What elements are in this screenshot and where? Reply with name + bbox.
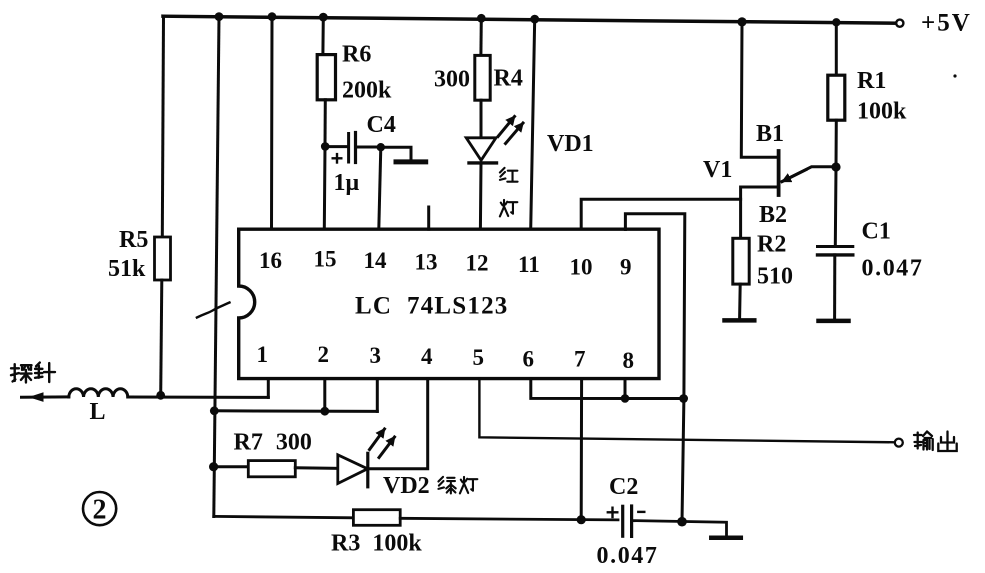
polarity - of C2 — [638, 511, 644, 513]
svg-text:R5: R5 — [119, 227, 148, 253]
transistor V1 base bar — [777, 151, 781, 195]
wire: bottom bus to R3 — [214, 516, 354, 517]
junction: emitter / R1 / C1 — [831, 162, 840, 171]
svg-text:V1: V1 — [703, 157, 732, 183]
label 灯 (lamp) — [500, 200, 517, 217]
wire: left vertical to pins 2,3 — [214, 409, 377, 413]
figure number (2) — [83, 492, 116, 525]
svg-text:B2: B2 — [759, 202, 787, 228]
wire: C2 to ground stub — [632, 521, 727, 537]
wire: probe lead — [22, 395, 69, 398]
junction: rail to V1 branch — [737, 17, 746, 26]
junction: R6/C4 node — [321, 142, 330, 151]
svg-text:R6: R6 — [342, 42, 371, 68]
wire: emitter node down to C1 — [834, 167, 838, 246]
wire: node to C4 left plate — [325, 145, 347, 148]
IC U1 body LC 74LS123 — [239, 229, 659, 378]
wire: C4 node down to pin 15 — [323, 146, 327, 229]
svg-text:200k: 200k — [342, 78, 392, 104]
svg-text:1: 1 — [257, 342, 269, 367]
wire: R1 to emitter node — [835, 120, 838, 167]
ground (bottom bus) — [711, 535, 741, 540]
ground (R2) — [725, 318, 755, 323]
svg-text:51k: 51k — [108, 256, 146, 282]
wire: R5 to probe node — [161, 280, 162, 396]
svg-text:R1: R1 — [857, 68, 886, 94]
junction: rail x219 — [215, 12, 224, 21]
node: output open terminal — [895, 439, 903, 447]
wire: rail down to pin 16 — [270, 17, 274, 230]
junction: pin 8 — [621, 394, 630, 403]
wire: pin 9 up over and down to bottom bus — [625, 214, 684, 522]
resistor R2 — [733, 238, 749, 284]
resistor R4 — [475, 55, 490, 100]
svg-text:R4: R4 — [494, 66, 523, 92]
junction: left vertical / pins 2-3 wire — [210, 406, 219, 415]
polarity + of C4 — [333, 157, 342, 159]
svg-text:2: 2 — [93, 495, 107, 526]
svg-text:300: 300 — [434, 67, 470, 93]
svg-text:3: 3 — [370, 343, 382, 368]
svg-text:0.047: 0.047 — [597, 543, 659, 569]
svg-text:11: 11 — [518, 252, 540, 277]
wire: B2 lead of V1 — [741, 187, 777, 238]
wire: rail to bottom bus (long left vertical) — [214, 17, 219, 517]
svg-text:7: 7 — [574, 347, 586, 372]
svg-text:2: 2 — [318, 342, 330, 367]
label 探针 (probe) — [11, 364, 31, 382]
wire: rail down to pin 11 — [531, 19, 535, 230]
wire: VD1 cathode down to pin 12 — [479, 163, 483, 230]
svg-text:+5V: +5V — [921, 10, 972, 37]
ground (C1) — [819, 319, 849, 324]
svg-text:16: 16 — [259, 248, 282, 273]
transistor V1 emitter — [782, 167, 836, 182]
wire: pin 2 stub — [323, 379, 326, 412]
ground (C4) — [396, 159, 426, 164]
junction: R5 / L wire — [156, 391, 165, 400]
wire: rail down to resistor R1 — [835, 22, 838, 75]
wire: pin 3 stub — [376, 379, 379, 412]
svg-text:L: L — [90, 399, 106, 425]
resistor R1 — [828, 75, 845, 120]
junction: pin 7 / bottom bus — [577, 515, 586, 524]
resistor R7 — [248, 461, 295, 477]
node: +5V open terminal — [896, 20, 903, 27]
svg-text:13: 13 — [415, 250, 438, 275]
wire: pin 5 down and right to output terminal — [479, 379, 894, 443]
wire: rail down to resistor R6 — [321, 17, 324, 55]
junction: rail x481 — [477, 14, 486, 23]
speck — [953, 74, 956, 77]
wire: pin 7 down to bottom bus — [580, 379, 583, 520]
light arrow 1 of VD1 — [498, 117, 515, 137]
wire: pin 8 stub — [624, 379, 627, 399]
wire: node down to pin 14 — [379, 147, 381, 229]
LED VD2 cathode bar — [366, 453, 369, 487]
label 绿灯 (green lamp) — [438, 477, 455, 494]
wire: R3 to C2 — [400, 518, 618, 520]
svg-text:R3 100k: R3 100k — [331, 531, 422, 557]
resistor R5 — [155, 237, 171, 280]
svg-text:4: 4 — [421, 344, 433, 369]
junction: pins 6-8 wire / pin 9 vertical — [679, 394, 688, 403]
wire: rail down to B1 of V1 — [741, 22, 778, 157]
svg-text:10: 10 — [570, 255, 593, 280]
polarity + of C2 — [608, 511, 618, 513]
wire: R4 to VD1 anode — [480, 100, 483, 138]
svg-text:0.047: 0.047 — [862, 256, 924, 282]
svg-text:R7 300: R7 300 — [234, 430, 312, 456]
light arrow 2 of VD1 — [506, 123, 524, 144]
junction: rail x534 — [530, 15, 539, 24]
svg-text:8: 8 — [623, 348, 635, 373]
junction: pin 2 — [320, 407, 329, 416]
pin 13 stub above IC — [427, 207, 430, 229]
wire: R7 to VD2 anode — [295, 466, 338, 470]
capacitor C2 plates — [621, 506, 624, 536]
junction: left vertical / R7 wire — [209, 462, 218, 471]
svg-text:14: 14 — [364, 248, 388, 273]
wire: pin 10 to B2/R2 node — [581, 199, 740, 229]
wire: +5V top rail — [163, 16, 897, 23]
probe arrow — [29, 392, 44, 402]
label 红 (red) — [500, 168, 518, 182]
emitter arrowhead of V1 — [783, 170, 807, 182]
capacitor C1 plates — [818, 245, 853, 248]
LED VD1 triangle — [466, 138, 496, 161]
wire: pin 6 stub to pins 6-8 wire — [531, 379, 684, 399]
wire: rail down to resistor R4 — [479, 18, 482, 55]
junction: pin 9 vertical / bottom bus — [677, 517, 687, 527]
svg-text:C1: C1 — [862, 219, 891, 245]
wire: R2 to ground — [738, 284, 742, 318]
svg-text:510: 510 — [757, 264, 793, 290]
wire: pin 1 stub — [267, 379, 270, 398]
wire: to resistor R7 — [214, 465, 249, 468]
svg-text:VD2: VD2 — [383, 473, 430, 499]
wire: L to pin 1 — [128, 396, 268, 399]
svg-text:VD1: VD1 — [547, 131, 594, 157]
svg-text:6: 6 — [523, 347, 535, 372]
light arrow 1 of VD2 — [370, 429, 385, 450]
svg-text:C4: C4 — [367, 112, 396, 138]
svg-text:15: 15 — [314, 247, 337, 272]
junction: rail to R1 branch — [832, 18, 840, 26]
LED VD1 cathode bar — [469, 161, 497, 164]
squiggle mark crossing left vertical — [197, 303, 230, 318]
wire: VD2 cathode to pin 4 — [368, 379, 428, 469]
resistor R3 — [353, 510, 400, 526]
LED VD2 triangle — [338, 455, 368, 484]
svg-text:LC 74LS123: LC 74LS123 — [355, 293, 509, 320]
wire: rail down to resistor R5 — [162, 16, 163, 237]
wire: C1 to ground — [833, 255, 836, 319]
svg-text:9: 9 — [620, 255, 632, 280]
svg-text:B1: B1 — [756, 121, 784, 147]
svg-text:100k: 100k — [857, 99, 907, 125]
label 输出 (output) — [914, 432, 933, 451]
svg-text:C2: C2 — [609, 474, 638, 500]
junction: C4 / pin14 node — [377, 143, 385, 151]
svg-text:1μ: 1μ — [334, 170, 360, 196]
junction: rail x323 — [319, 13, 328, 22]
light arrow 2 of VD2 — [379, 437, 395, 458]
wire: C4 right plate to node — [356, 146, 381, 149]
junction: rail x272 — [268, 12, 277, 21]
inductor L coil — [69, 389, 128, 397]
resistor R6 — [317, 55, 335, 100]
svg-text:5: 5 — [473, 345, 485, 370]
svg-text:12: 12 — [466, 251, 489, 276]
wire: R6 to C4 node — [324, 100, 327, 147]
wire: C4 node to ground stub — [381, 147, 411, 160]
capacitor C4 plates — [347, 134, 350, 163]
svg-text:R2: R2 — [757, 232, 786, 258]
